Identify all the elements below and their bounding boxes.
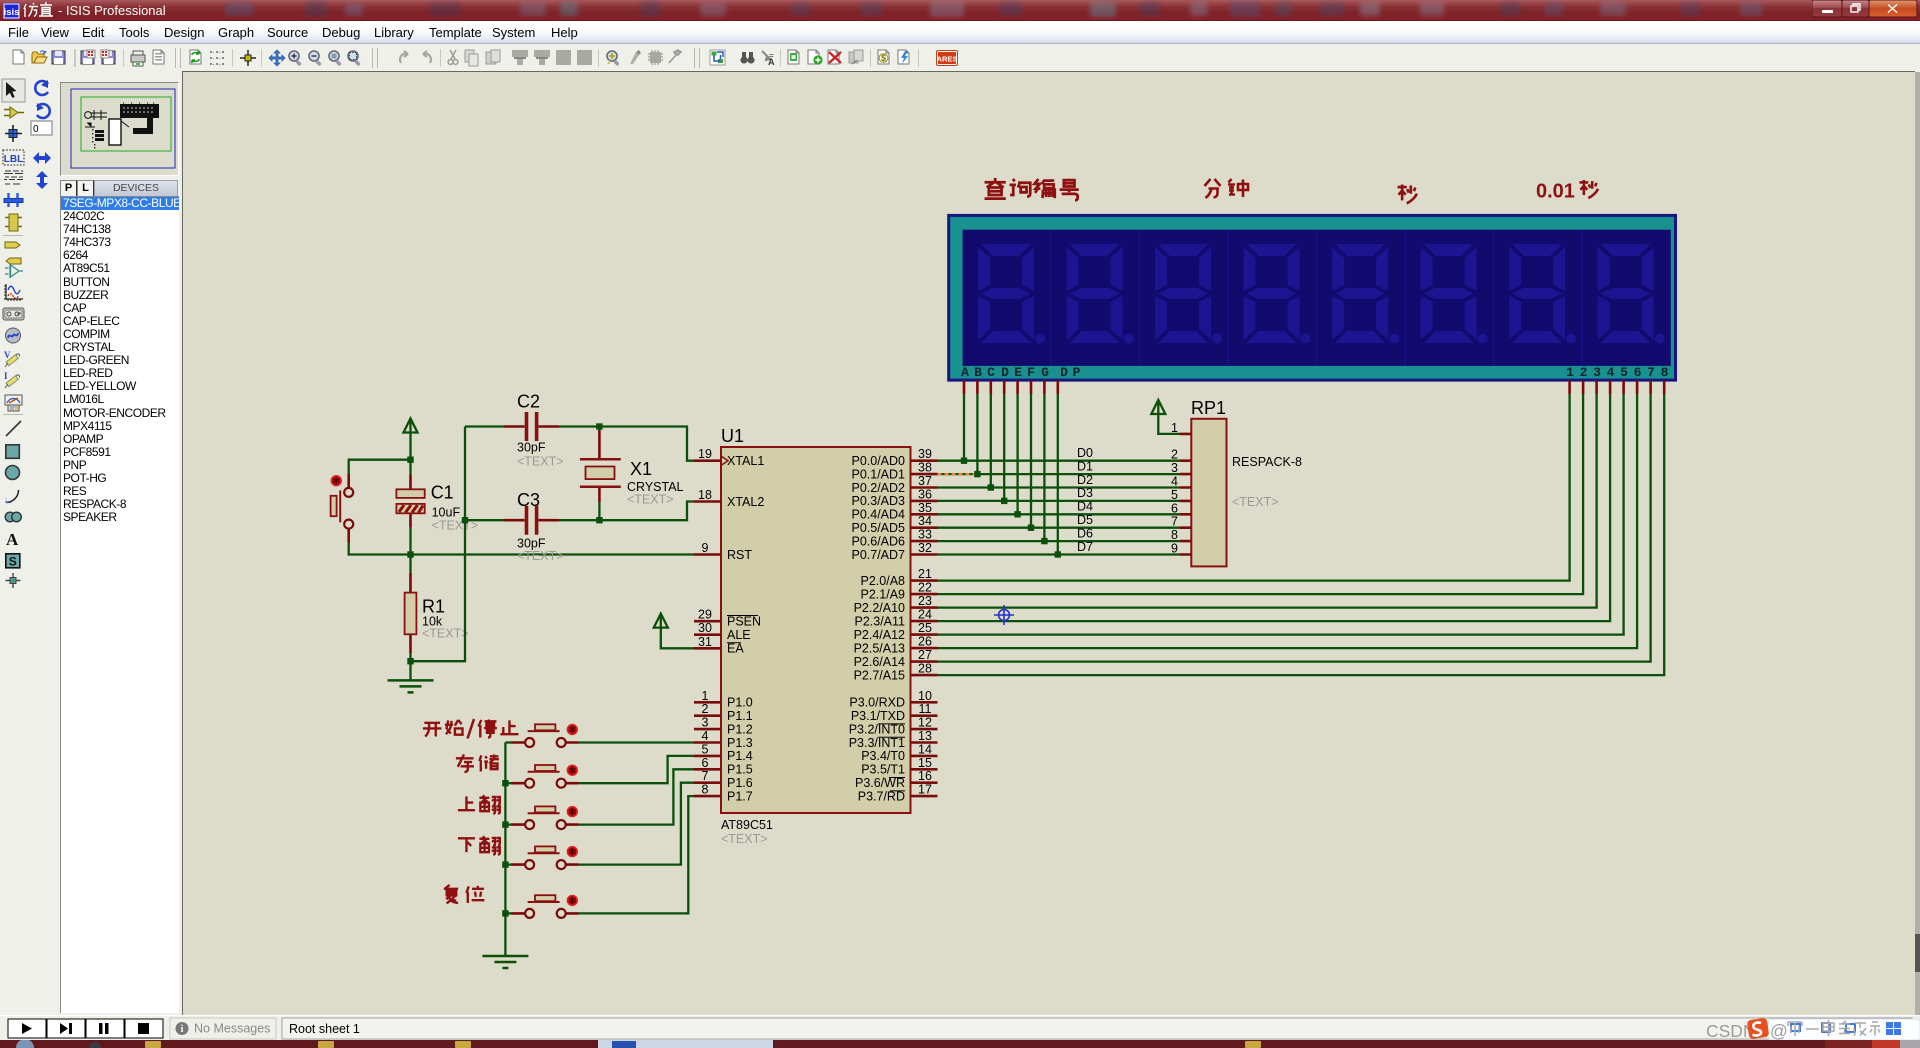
label: start/stop (kai shi / ting zhi) [423, 719, 519, 739]
svg-text:isis: isis [4, 7, 20, 18]
svg-text:U1: U1 [721, 426, 744, 446]
svg-text:E: E [1014, 365, 1022, 380]
wire XTAL1 net (C2 row to U1 pin 19) [465, 427, 694, 461]
display DS1 7SEG-MPX8-CC-BLUE frame [949, 215, 1676, 380]
svg-text:D: D [1060, 365, 1068, 380]
svg-text:3: 3 [702, 716, 709, 730]
svg-text:RP1: RP1 [1191, 398, 1226, 418]
svg-text:21: 21 [918, 567, 932, 581]
svg-text:17: 17 [918, 783, 932, 797]
svg-text:<TEXT>: <TEXT> [422, 626, 469, 640]
svg-text:PSEN: PSEN [727, 615, 761, 629]
svg-text:D1: D1 [1077, 459, 1093, 473]
buttons common wire to ground [504, 743, 506, 957]
U1 left pin numbers [698, 447, 712, 796]
svg-text:30: 30 [698, 621, 712, 635]
svg-text:34: 34 [918, 514, 932, 528]
wire vertical branch (C2/C3 left leg) [411, 427, 466, 662]
svg-text:B: B [974, 365, 982, 380]
svg-text:<TEXT>: <TEXT> [1232, 495, 1279, 509]
button S2 store [505, 756, 694, 788]
svg-text:A: A [961, 365, 969, 380]
svg-text:S: S [9, 555, 17, 569]
svg-text:- ISIS Professional: - ISIS Professional [58, 3, 166, 18]
display cell dividers [1051, 230, 1582, 366]
svg-text:A: A [768, 57, 775, 67]
svg-text:P1.3: P1.3 [727, 736, 753, 750]
svg-text:2: 2 [1580, 365, 1588, 380]
svg-text:i: i [181, 1024, 184, 1035]
svg-text:6: 6 [1634, 365, 1642, 380]
net labels D0-D7 [1077, 446, 1093, 554]
svg-text:C1: C1 [431, 483, 454, 503]
svg-text:A: A [6, 530, 19, 549]
svg-text:P0.2/AD2: P0.2/AD2 [851, 481, 905, 495]
svg-text:C3: C3 [517, 490, 540, 510]
resistor pack RP1 body [1191, 419, 1226, 567]
svg-text:P0.3/AD3: P0.3/AD3 [851, 494, 905, 508]
svg-text:P2.6/A14: P2.6/A14 [854, 655, 905, 669]
svg-text:F: F [1027, 365, 1035, 380]
svg-text:3: 3 [1171, 461, 1178, 475]
wire XTAL2 net (C3 row to U1 pin 18) [465, 502, 694, 521]
svg-text:X1: X1 [630, 459, 652, 479]
wire EA power [661, 628, 694, 649]
svg-text:13: 13 [918, 729, 932, 743]
wire R1 bottom to ground [409, 661, 411, 680]
button S4 page down [505, 783, 694, 869]
svg-text:R1: R1 [422, 596, 445, 616]
button S3 page up [505, 769, 694, 829]
svg-text:P0.1/AD1: P0.1/AD1 [851, 467, 905, 481]
label: page up (shang fan) [458, 795, 500, 813]
svg-text:5: 5 [1171, 488, 1178, 502]
display digits (8 off digits) [978, 244, 1665, 344]
svg-text:1: 1 [1566, 365, 1574, 380]
svg-text:<TEXT>: <TEXT> [721, 832, 768, 846]
svg-text:24: 24 [918, 608, 932, 622]
resistor R1 10k [409, 555, 411, 662]
svg-text:P3.6/WR: P3.6/WR [855, 776, 905, 790]
svg-text:AT89C51: AT89C51 [721, 818, 773, 832]
svg-text:XTAL2: XTAL2 [727, 495, 764, 509]
RP1 pin stubs [1180, 434, 1191, 555]
svg-text:8: 8 [1171, 528, 1178, 542]
svg-text:32: 32 [918, 541, 932, 555]
svg-text:No Messages: No Messages [194, 1022, 270, 1036]
svg-text:4: 4 [1171, 475, 1178, 489]
svg-text:4: 4 [1607, 365, 1615, 380]
U1 right pin names [849, 454, 905, 803]
label: query number (cha xun bian hao) [985, 178, 1079, 200]
wires: segment verticals from display to data bus rows [964, 394, 1058, 555]
svg-text:P2.4/A12: P2.4/A12 [854, 628, 905, 642]
svg-text:39: 39 [918, 447, 932, 461]
svg-text:P0.4/AD4: P0.4/AD4 [851, 508, 905, 522]
svg-text:P3.2/INT0: P3.2/INT0 [849, 722, 905, 736]
svg-text:37: 37 [918, 474, 932, 488]
title text: fangzhen - ISIS Professional [22, 0, 282, 21]
svg-text:5: 5 [702, 742, 709, 756]
svg-text:P1.2: P1.2 [727, 722, 753, 736]
wires: P2 rows to display digit pins (nested L) [938, 394, 1665, 675]
svg-text:<TEXT>: <TEXT> [517, 455, 564, 469]
svg-text:C2: C2 [517, 391, 540, 411]
display digit pins (red stubs, bottom right) [1570, 380, 1665, 394]
svg-text:P0.0/AD0: P0.0/AD0 [851, 454, 905, 468]
U1 left pin names [727, 454, 764, 803]
svg-text:7: 7 [702, 769, 709, 783]
label: store (cun chu) [456, 754, 499, 772]
svg-text:P3.4/T0: P3.4/T0 [861, 749, 905, 763]
svg-text:P1.6: P1.6 [727, 776, 753, 790]
svg-text:5: 5 [1620, 365, 1628, 380]
svg-text:I: I [4, 371, 8, 381]
wires: P0 data bus rows to RP1 [938, 461, 1181, 555]
capacitor C1 (electrolytic 10uF) [409, 460, 411, 475]
svg-text:9: 9 [1171, 542, 1178, 556]
wire RST net (button to U1 pin 9) [349, 543, 694, 555]
svg-text:P2.2/A10: P2.2/A10 [854, 601, 905, 615]
svg-text:16: 16 [918, 769, 932, 783]
svg-text:P2.1/A9: P2.1/A9 [861, 588, 906, 602]
svg-text:10: 10 [918, 689, 932, 703]
svg-text:35: 35 [918, 501, 932, 515]
svg-text:1: 1 [702, 689, 709, 703]
button power-switch symbol (vertical) [344, 488, 353, 497]
app icon [3, 3, 20, 19]
svg-text:P2.5/A13: P2.5/A13 [854, 642, 905, 656]
svg-text:31: 31 [698, 635, 712, 649]
svg-text:<TEXT>: <TEXT> [517, 549, 564, 563]
svg-text:ALE: ALE [727, 628, 751, 642]
label: minutes (fen zhong) [1205, 179, 1249, 198]
button S1 start/stop [505, 724, 694, 747]
wire junction to button top [349, 460, 411, 474]
capacitor C2 30pF plates [527, 412, 537, 441]
junction dots left section [407, 423, 602, 664]
svg-text:ARES: ARES [937, 55, 958, 64]
svg-text:P2.3/A11: P2.3/A11 [854, 615, 905, 629]
aero blur artifacts [0, 0, 1920, 21]
svg-text:P3.5/T1: P3.5/T1 [861, 763, 905, 777]
label: page down (xia fan) [458, 836, 500, 854]
svg-text:14: 14 [918, 742, 932, 756]
svg-text:29: 29 [698, 608, 712, 622]
display segment pin labels ABCDEFG DP [961, 365, 1081, 380]
svg-text:P0.6/AD6: P0.6/AD6 [851, 534, 905, 548]
RP1 pin numbers 1-9 [1171, 421, 1178, 556]
capacitor C3 30pF plates [527, 506, 537, 535]
svg-text:RESPACK-8: RESPACK-8 [1232, 455, 1302, 469]
highlighted wire segment (orange dashed) on D1 row [938, 473, 977, 475]
svg-text:8: 8 [702, 783, 709, 797]
svg-text:P2.7/A15: P2.7/A15 [854, 669, 905, 683]
svg-text:9: 9 [702, 541, 709, 555]
svg-text:XTAL1: XTAL1 [727, 454, 764, 468]
svg-text:23: 23 [918, 594, 932, 608]
svg-text:D4: D4 [1077, 500, 1093, 514]
svg-text:P1.0: P1.0 [727, 696, 753, 710]
svg-text:$: $ [881, 53, 886, 63]
svg-text:7: 7 [1647, 365, 1655, 380]
display segment pins (red stubs, bottom left) [964, 380, 1058, 394]
svg-text:P3.3/INT1: P3.3/INT1 [849, 736, 905, 750]
svg-text:2: 2 [702, 702, 709, 716]
svg-text:P2.0/A8: P2.0/A8 [861, 574, 906, 588]
svg-text:12: 12 [918, 716, 932, 730]
svg-text:P3.7/RD: P3.7/RD [858, 789, 905, 803]
label: reset (fu wei) [444, 885, 485, 904]
svg-text:38: 38 [918, 461, 932, 475]
svg-text:D2: D2 [1077, 473, 1093, 487]
svg-text:26: 26 [918, 635, 932, 649]
svg-text:D5: D5 [1077, 513, 1093, 527]
svg-text:6: 6 [1171, 501, 1178, 515]
button power-switch stubs [347, 474, 350, 543]
svg-text:P: P [1073, 365, 1081, 380]
display screen [963, 230, 1671, 366]
svg-text:3: 3 [1593, 365, 1601, 380]
svg-text:P3.1/TXD: P3.1/TXD [851, 709, 905, 723]
svg-text:0: 0 [33, 124, 39, 135]
svg-text:C: C [987, 365, 995, 380]
button S5 reset [505, 796, 694, 918]
svg-text:Root sheet 1: Root sheet 1 [289, 1022, 360, 1036]
svg-text:P1.4: P1.4 [727, 749, 753, 763]
svg-text:P0.5/AD5: P0.5/AD5 [851, 521, 905, 535]
svg-text:10uF: 10uF [432, 506, 461, 520]
U1 right pin numbers [918, 447, 932, 796]
svg-text:D0: D0 [1077, 446, 1093, 460]
svg-text:30pF: 30pF [517, 440, 546, 454]
svg-text:D7: D7 [1077, 540, 1093, 554]
U1 right pin stubs [911, 461, 938, 796]
display digit pin labels 12345678 [1566, 365, 1669, 380]
svg-text:6: 6 [702, 756, 709, 770]
svg-text:D6: D6 [1077, 526, 1093, 540]
label: seconds (miao) [1398, 185, 1417, 204]
power arrow VCC near C1 [404, 419, 418, 433]
svg-text:27: 27 [918, 648, 932, 662]
svg-text:P1.7: P1.7 [727, 789, 753, 803]
svg-text:25: 25 [918, 621, 932, 635]
svg-text:<TEXT>: <TEXT> [627, 492, 674, 506]
svg-text:19: 19 [698, 447, 712, 461]
svg-text:LBL: LBL [4, 154, 23, 165]
svg-text:2: 2 [1171, 448, 1178, 462]
svg-text:8: 8 [1661, 365, 1669, 380]
svg-text:28: 28 [918, 662, 932, 676]
ground under R1 [388, 680, 434, 692]
ground under buttons [482, 956, 528, 968]
svg-text:EA: EA [727, 642, 744, 656]
resistor pack RP1 power arrow [1151, 400, 1165, 414]
svg-text:P1.1: P1.1 [727, 709, 753, 723]
junction dots on data bus [961, 458, 1061, 558]
svg-text:RST: RST [727, 548, 752, 562]
svg-text:1: 1 [1171, 421, 1178, 435]
U1 left pin stubs [694, 461, 721, 796]
U1 XTAL1 clock arrow [721, 456, 728, 465]
window buttons [1812, 0, 1920, 21]
svg-text:22: 22 [918, 581, 932, 595]
svg-text:33: 33 [918, 528, 932, 542]
svg-text:11: 11 [919, 702, 932, 716]
svg-text:P0.7/AD7: P0.7/AD7 [851, 548, 905, 562]
MCU U1 AT89C51 body [721, 447, 911, 813]
wire VCC down to junction [409, 433, 411, 460]
svg-text:7: 7 [1171, 515, 1178, 529]
svg-text:D: D [1001, 365, 1009, 380]
svg-text:D3: D3 [1077, 486, 1093, 500]
svg-text:15: 15 [918, 756, 932, 770]
svg-text:G: G [1041, 365, 1049, 380]
watermark CSDN @guanyi electronics [1690, 1016, 1920, 1041]
svg-text:36: 36 [918, 487, 932, 501]
svg-text:0.01: 0.01 [1536, 181, 1575, 203]
crystal X1 [586, 467, 615, 480]
svg-text:P3.0/RXD: P3.0/RXD [849, 696, 905, 710]
svg-text:P1.5: P1.5 [727, 763, 753, 777]
mouse cursor crosshair [994, 605, 1014, 625]
svg-text:4: 4 [702, 729, 709, 743]
wire RP1 pin1 to power [1158, 414, 1180, 434]
power arrow at EA [654, 614, 668, 628]
svg-text:18: 18 [698, 488, 712, 502]
svg-text:@: @ [1770, 1021, 1788, 1041]
